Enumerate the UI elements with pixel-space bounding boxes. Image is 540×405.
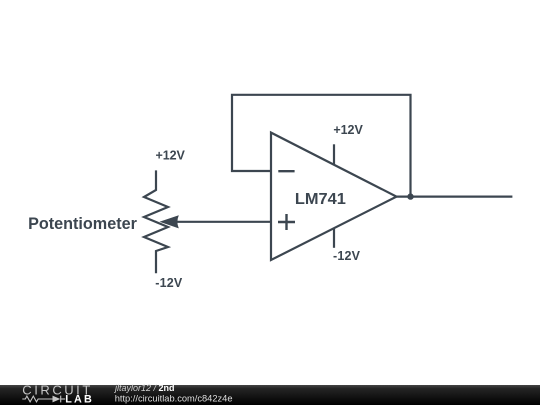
svg-text:-12V: -12V	[155, 276, 183, 290]
svg-text:-12V: -12V	[333, 249, 361, 263]
svg-text:http://circuitlab.com/c842z4e: http://circuitlab.com/c842z4e	[115, 393, 233, 403]
svg-text:Potentiometer: Potentiometer	[28, 215, 137, 233]
svg-text:LAB: LAB	[65, 394, 92, 405]
svg-text:+12V: +12V	[156, 148, 186, 162]
svg-text:+12V: +12V	[333, 123, 363, 137]
svg-text:LM741: LM741	[295, 191, 346, 208]
svg-text:jltaylor12 / 2nd: jltaylor12 / 2nd	[114, 383, 175, 393]
